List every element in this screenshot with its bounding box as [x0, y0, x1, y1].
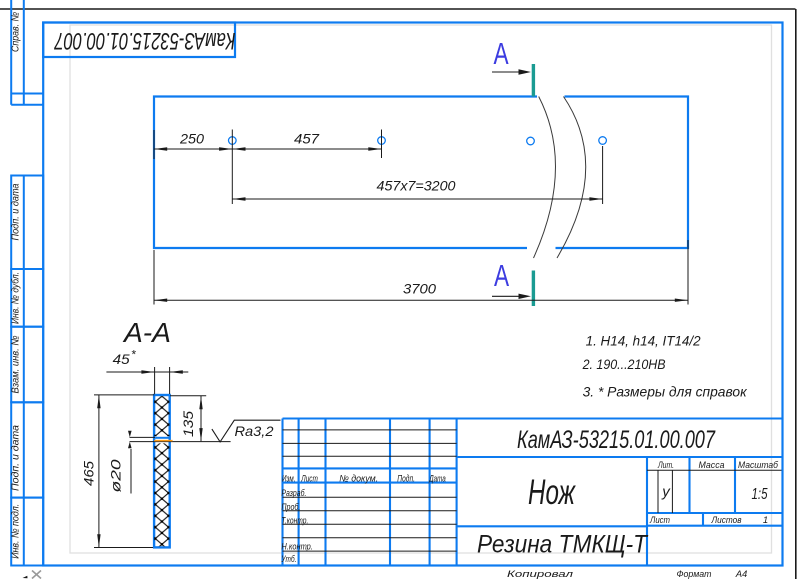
left margin labels: [10, 12, 22, 559]
page black border right: [795, 9, 797, 579]
svg-text:3. * Размеры для справок: 3. * Размеры для справок: [583, 384, 748, 400]
svg-text:Инв. № дубл.: Инв. № дубл.: [10, 272, 22, 324]
dim line 250 / 457: [154, 148, 382, 150]
svg-text:Лист: Лист: [301, 474, 318, 485]
svg-text:250: 250: [179, 131, 204, 147]
svg-text:Изм.: Изм.: [282, 474, 296, 485]
hole top short black line: [130, 436, 156, 438]
svg-text:Разраб.: Разраб.: [281, 488, 306, 499]
svg-text:135: 135: [180, 411, 196, 437]
section strip outline: [154, 395, 170, 547]
svg-text:А4: А4: [735, 569, 748, 579]
svg-text:457: 457: [294, 131, 320, 147]
hole bottom line orange: [154, 440, 172, 442]
svg-text:Утб.: Утб.: [281, 554, 297, 565]
svg-text:КамАЗ-53215.01.00.007: КамАЗ-53215.01.00.007: [517, 426, 716, 454]
dim line 3700: [154, 299, 688, 301]
svg-text:А: А: [494, 257, 510, 292]
svg-text:Лит.: Лит.: [657, 460, 674, 471]
bottom-left artifacts: [32, 571, 41, 579]
svg-text:Т.контр.: Т.контр.: [281, 516, 308, 527]
top-left stamp box: [43, 23, 235, 58]
section arrows: [492, 71, 526, 73]
svg-text:Нож: Нож: [528, 473, 576, 512]
main view plate outline with break gaps: [154, 97, 688, 249]
svg-text:Проб.: Проб.: [281, 502, 300, 513]
section strip hatch: [154, 396, 169, 436]
svg-text:Ra3,2: Ra3,2: [235, 423, 274, 439]
svg-text:457х7=3200: 457х7=3200: [377, 178, 456, 194]
svg-text:Масштаб: Масштаб: [738, 460, 779, 471]
svg-text:ø20: ø20: [108, 459, 124, 492]
svg-text:Инв. № подл.: Инв. № подл.: [10, 504, 22, 559]
svg-text:45: 45: [113, 351, 130, 367]
sheet gray boundary: [70, 25, 772, 553]
dim o20: [128, 431, 132, 438]
svg-text:1: 1: [763, 515, 768, 526]
svg-text:Подп. и дата: Подп. и дата: [10, 183, 22, 240]
svg-text:Взам. инв. №: Взам. инв. №: [10, 336, 22, 394]
svg-text:КамАЗ-53215.01.00.007: КамАЗ-53215.01.00.007: [53, 27, 235, 54]
break line curve 1: [534, 97, 556, 259]
svg-text:Н.контр.: Н.контр.: [281, 542, 313, 553]
dim 45*: [154, 367, 156, 394]
roughness Ra3,2: [212, 420, 281, 442]
svg-text:Копировал: Копировал: [507, 569, 574, 579]
svg-text:1:5: 1:5: [752, 486, 768, 503]
svg-text:Подп.: Подп.: [397, 474, 415, 485]
section letters: [493, 35, 509, 292]
hole top line blue: [155, 437, 168, 439]
svg-text:1. Н14, h14, IТ14/2: 1. Н14, h14, IТ14/2: [586, 332, 701, 348]
section plane ticks: [532, 64, 535, 97]
hole line black long (leader for 135 / Ra): [130, 441, 231, 443]
svg-text:Формат: Формат: [677, 569, 712, 579]
left margin column boxes: [11, 0, 43, 566]
holes: [229, 137, 607, 145]
svg-text:А: А: [493, 35, 509, 70]
dim 465: [94, 394, 155, 396]
svg-text:Листов: Листов: [711, 515, 742, 526]
svg-text:Справ. №: Справ. №: [10, 12, 22, 52]
svg-text:*: *: [131, 348, 136, 362]
break line curve 2: [557, 97, 586, 259]
svg-text:Резина ТМКЩ-Т: Резина ТМКЩ-Т: [477, 531, 649, 559]
svg-text:465: 465: [81, 461, 97, 486]
svg-text:2. 190...210НВ: 2. 190...210НВ: [582, 356, 666, 372]
page black border top: [0, 8, 796, 10]
svg-text:3700: 3700: [403, 281, 436, 297]
svg-text:Дата: Дата: [429, 474, 446, 485]
extension lines main view: [154, 130, 688, 305]
notes: [582, 332, 748, 399]
svg-text:А-А: А-А: [122, 317, 171, 348]
title block small labels: [281, 460, 779, 579]
svg-text:Масса: Масса: [699, 460, 725, 471]
dim 135: [170, 395, 206, 397]
dim line 457x7=3200: [232, 198, 602, 200]
svg-text:Лист: Лист: [649, 515, 670, 526]
svg-text:№ докум.: № докум.: [339, 474, 378, 485]
svg-text:Подп. и дата: Подп. и дата: [10, 425, 22, 491]
title block: [283, 419, 783, 566]
